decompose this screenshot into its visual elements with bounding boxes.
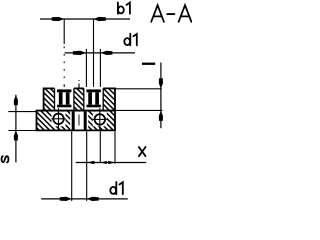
bottom edge: [36, 129, 116, 131]
s rail top: [8, 111, 36, 113]
extension line d1 right: [99, 49, 101, 89]
insert 2 flange: [86, 89, 100, 92]
x dimension line: [76, 162, 147, 164]
right dim label dash: [142, 63, 155, 65]
ball 1 centerlines: [58, 108, 60, 130]
pocket ball 2 white: [93, 112, 107, 127]
d1 bottom arrow right: [87, 197, 99, 201]
pocket ball 1 white: [52, 112, 66, 127]
label d1 top: [124, 34, 137, 46]
extension 71.7 below part: [71, 132, 73, 201]
part top edge segments: [44, 87, 115, 89]
extension line d1 left: [85, 49, 87, 89]
section title A-A: [151, 5, 191, 22]
boundary right extension: [115, 109, 163, 111]
s arrow bottom: [14, 130, 18, 140]
centerline slot1 (b1 left extension): [63, 19, 65, 44]
arrow b1 right: [94, 17, 106, 21]
slot 2 walls: [84, 88, 103, 109]
centerline central bore above part: [78, 80, 80, 81]
slot 1 walls: [55, 88, 74, 109]
insert 2 body bars: [88, 92, 92, 104]
block left edge: [43, 88, 45, 111]
arrow d1 right: [100, 51, 112, 55]
extension 115 below part: [114, 132, 116, 164]
s dimension line: [15, 95, 17, 163]
right dim arrow down: [159, 78, 163, 88]
d1 bottom arrow left: [60, 197, 72, 201]
arrow b1 left: [52, 17, 64, 21]
right edge: [114, 88, 116, 131]
dimension line b1: [40, 18, 130, 20]
extension 100.3 below part: [99, 132, 101, 164]
hatched plate lower: [37, 111, 116, 131]
top edge right extension: [115, 88, 162, 90]
x arrow inside left at 86.7: [87, 161, 95, 165]
right dimension vertical line: [160, 63, 162, 129]
internal boundary line: [36, 110, 116, 112]
d1 bottom dimension line: [41, 198, 128, 200]
insert 1 body bars: [59, 92, 63, 104]
s rail bottom: [8, 130, 36, 132]
right dim arrow up: [159, 111, 163, 121]
x arrow inside right at 115: [108, 161, 115, 164]
extension 86.7 below part: [86, 132, 88, 201]
insert 1 bottom bar: [57, 105, 71, 108]
dimension line d1 top: [65, 52, 135, 54]
ball 2: [95, 114, 106, 125]
label x: [139, 147, 146, 156]
label s (rotated): [2, 156, 9, 162]
arrow d1 left: [73, 51, 87, 55]
ball 2 centerlines: [99, 108, 101, 130]
central bore white: [70, 112, 88, 130]
central bushing bars: [72, 112, 75, 130]
ball 1: [53, 114, 64, 125]
hatched block upper: [44, 88, 115, 110]
plate left edge: [36, 111, 38, 131]
slot 1 white: [55, 87, 74, 110]
s arrow top: [14, 95, 18, 105]
label b1: [118, 2, 130, 13]
central bore centerline: [78, 115, 80, 126]
insert 2 bottom bar: [86, 105, 100, 108]
insert 1 flange: [57, 89, 71, 92]
label d1 bottom: [110, 182, 123, 194]
centerline slot2 (b1 right extension): [93, 19, 95, 89]
arrows around 100.3: [100, 161, 107, 164]
slot 2 white: [84, 87, 103, 110]
